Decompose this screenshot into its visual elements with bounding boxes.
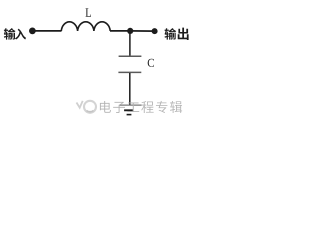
label L: [86, 8, 91, 16]
wire: junction down to capacitor: [129, 32, 131, 56]
label C: [148, 59, 154, 67]
capacitor C bottom plate: [118, 71, 141, 73]
node label 输出 (output): [165, 28, 189, 40]
watermark logo (decorative swirl): [77, 101, 97, 113]
wire: capacitor to ground: [129, 73, 131, 105]
wire: inductor to junction: [110, 30, 130, 32]
ground: [119, 105, 141, 115]
capacitor C top plate: [119, 55, 142, 57]
watermark text 电子工程专辑: [100, 101, 182, 113]
inductor L: [61, 22, 110, 31]
node: input terminal dot: [29, 28, 36, 35]
node: output terminal dot: [152, 28, 158, 34]
junction node dot: [127, 28, 133, 34]
wire: junction to output: [130, 30, 155, 32]
node label 输入 (input): [4, 28, 26, 40]
wire: input to inductor: [34, 30, 62, 32]
